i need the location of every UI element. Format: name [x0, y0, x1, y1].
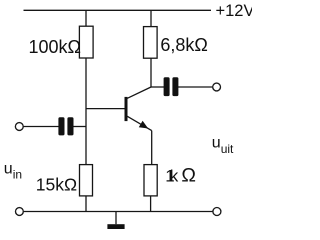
wire bottom ground rail	[24, 211, 213, 213]
wire rail to R2	[150, 10, 152, 26]
wire C2 to output terminal	[178, 86, 213, 88]
resistor R4 1k body	[144, 165, 157, 196]
wire input terminal to C1	[24, 126, 59, 128]
transistor Q1 base bar	[125, 97, 128, 121]
wire R4 bottom to ground rail	[150, 196, 152, 212]
terminal input bottom	[16, 208, 24, 216]
wire R2 bottom to collector node	[150, 58, 152, 87]
wire R3 bottom to ground rail	[85, 196, 87, 212]
svg-text:1kΩ: 1kΩ	[165, 164, 196, 186]
wire base	[86, 108, 125, 110]
ground stem	[115, 212, 117, 225]
svg-text:uin: uin	[4, 160, 22, 181]
wire rail to R1	[85, 10, 87, 26]
transistor Q1 emitter lead	[127, 116, 151, 130]
resistor R2 6,8k body	[144, 27, 158, 59]
wire R1 bottom to base node	[85, 58, 87, 165]
resistor R3 15k body	[80, 165, 93, 196]
ground symbol bar	[107, 224, 124, 229]
wire collector node to C2	[151, 86, 164, 88]
svg-text:6,8kΩ: 6,8kΩ	[160, 35, 207, 55]
wire emitter to R4	[151, 131, 153, 165]
wire +12V top rail	[24, 9, 212, 11]
svg-text:100kΩ: 100kΩ	[29, 37, 82, 57]
transistor Q1 collector lead	[127, 87, 151, 98]
wire C1 to base node	[74, 126, 87, 128]
svg-text:15kΩ: 15kΩ	[36, 175, 77, 195]
svg-text:uuit: uuit	[212, 135, 234, 156]
transistor Q1 emitter arrow	[139, 121, 148, 129]
svg-text:+12V: +12V	[216, 2, 253, 20]
resistor R1 100k body	[79, 26, 93, 58]
capacitor C1 plates	[58, 117, 64, 135]
terminal output top	[213, 83, 221, 91]
terminal input top	[15, 123, 23, 131]
capacitor C2 plates	[164, 77, 170, 96]
terminal output bottom	[213, 208, 221, 216]
